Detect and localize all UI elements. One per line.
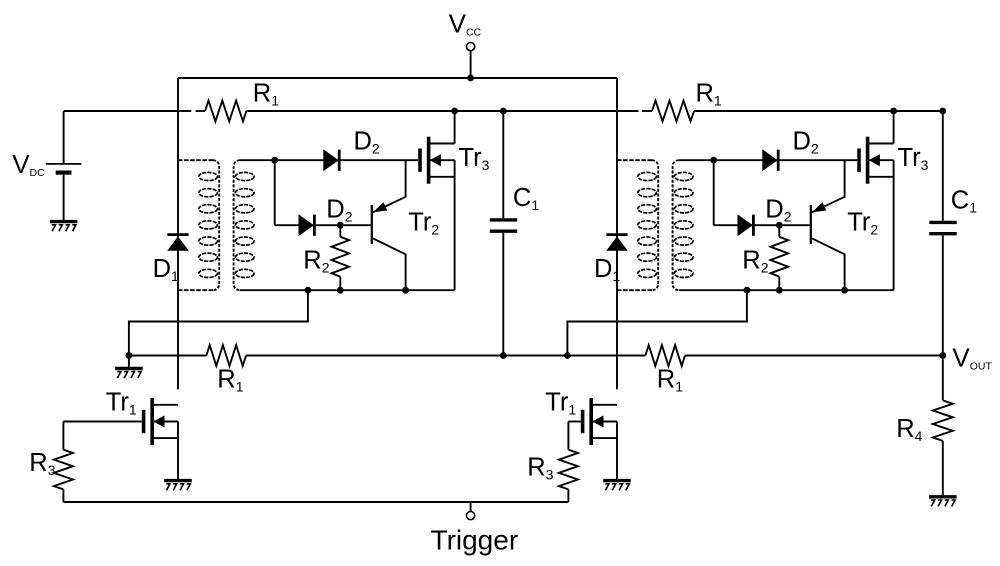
diode D1 (left) <box>167 235 188 251</box>
diode D2 lower (left) <box>299 215 314 236</box>
diode D2 lower (right) <box>738 215 753 236</box>
wire: block edge vertical (left) <box>177 78 179 389</box>
transformer secondary winding (left) <box>234 160 254 290</box>
resistor R4 <box>933 356 953 496</box>
wire: Tr3 source down (right) <box>893 160 895 290</box>
svg-text:D2: D2 <box>765 196 791 225</box>
node secondary return (right) <box>744 287 751 294</box>
label Tr3 (right) <box>898 144 929 173</box>
wire: lower D2 / base wire (left) <box>275 224 371 226</box>
label R3 (right) <box>527 453 553 482</box>
label R2 (right) <box>742 247 768 276</box>
node Tr3 drain rail junction (right) <box>890 108 897 115</box>
svg-text:Trigger: Trigger <box>431 524 519 555</box>
wire: Tr1 source down (right) <box>616 422 618 480</box>
svg-text:Tr2: Tr2 <box>408 208 439 237</box>
node Vout <box>939 352 946 359</box>
wire: Tr3 drain to rail (left) <box>454 111 456 144</box>
label R2 (left) <box>303 247 329 276</box>
node lower rail junction (left) <box>125 352 132 359</box>
svg-text:R3: R3 <box>29 449 55 478</box>
label C1 (left) <box>513 184 539 213</box>
label Vcc <box>449 9 482 39</box>
svg-text:D2: D2 <box>793 128 819 157</box>
label Tr1 (left) <box>106 388 137 417</box>
terminal Trigger <box>467 511 475 519</box>
label Tr2 (left) <box>408 208 439 237</box>
resistor R3 (right) <box>559 422 578 503</box>
svg-text:Tr3: Tr3 <box>898 144 929 173</box>
svg-text:C1: C1 <box>513 184 539 213</box>
transistor Tr1 (left) <box>63 398 178 445</box>
svg-text:VOUT: VOUT <box>952 343 992 373</box>
transformer secondary winding (right) <box>673 160 693 290</box>
svg-text:R1: R1 <box>217 365 243 394</box>
label Vout <box>952 343 992 373</box>
svg-text:C1: C1 <box>951 186 977 215</box>
transformer primary winding (right) <box>617 160 658 290</box>
node Tr3 drain rail junction (left) <box>451 108 458 115</box>
svg-text:VCC: VCC <box>449 9 482 39</box>
svg-text:R1: R1 <box>253 79 279 108</box>
transistor Tr2 (left) <box>372 160 406 290</box>
label D2 upper (right) <box>793 128 819 157</box>
node lower rail junction (right) <box>564 352 571 359</box>
node R2 bottom (right) <box>776 287 783 294</box>
wire: Tr1 source down (left) <box>177 422 179 480</box>
diode D2 upper (left) <box>324 150 339 171</box>
svg-text:R1: R1 <box>696 79 722 108</box>
svg-text:Tr3: Tr3 <box>459 144 490 173</box>
transistor Tr3 (right) <box>859 137 894 184</box>
wire: lower D2 / base wire (right) <box>714 224 810 226</box>
svg-text:Tr1: Tr1 <box>106 388 137 417</box>
node secondary return (left) <box>305 287 312 294</box>
diode D2 upper (right) <box>763 150 778 171</box>
ground (secondary return, left) <box>115 356 143 379</box>
label R1 (upper left) <box>253 79 279 108</box>
svg-text:R3: R3 <box>527 453 553 482</box>
label D2 lower (right) <box>765 196 791 225</box>
ground (R4) <box>929 497 957 507</box>
node Tr2 collector (right) <box>841 287 848 294</box>
label Tr3 (left) <box>459 144 490 173</box>
svg-text:Tr2: Tr2 <box>847 208 878 237</box>
label Trigger <box>431 524 519 555</box>
wire: secondary return to lower rail (left) <box>129 290 308 355</box>
wire: upper supply rail R1 row <box>64 110 943 112</box>
node C1 right top <box>939 108 946 115</box>
transistor Tr3 (left) <box>420 137 455 184</box>
svg-text:R2: R2 <box>303 247 329 276</box>
capacitor C1 (right) <box>929 111 956 356</box>
wire: D2 branch vertical (left) <box>274 160 276 225</box>
label D2 lower (left) <box>326 196 352 225</box>
node Vcc junction <box>467 75 474 82</box>
node D2 branch junction (left) <box>271 157 278 164</box>
wire: inner bottom rail (left) <box>240 289 455 291</box>
svg-text:D2: D2 <box>326 196 352 225</box>
svg-text:VDC: VDC <box>12 149 45 179</box>
node Tr2 collector (left) <box>402 287 409 294</box>
ground (battery) <box>50 222 78 232</box>
svg-text:D1: D1 <box>153 255 179 284</box>
svg-text:D2: D2 <box>354 128 380 157</box>
wire: trigger line <box>63 502 568 512</box>
transistor Tr1 (right) <box>568 398 617 445</box>
node R2 bottom (left) <box>337 287 344 294</box>
wire: Vcc top rail <box>178 77 617 79</box>
node C1 left bottom <box>500 352 507 359</box>
wire: Tr3 source down (left) <box>454 160 456 290</box>
label R1 (upper right) <box>696 79 722 108</box>
battery VDC <box>46 111 82 220</box>
label D1 (left) <box>153 255 179 284</box>
svg-text:R1: R1 <box>657 365 683 394</box>
ground (Tr1 right) <box>603 481 631 491</box>
node D2 branch junction (right) <box>710 157 717 164</box>
resistor R3 (left) <box>54 422 73 503</box>
wire: Tr3 drain to rail (right) <box>893 111 895 144</box>
transformer primary winding (left) <box>178 160 219 290</box>
wire: secondary return to lower rail (right) <box>567 290 747 355</box>
svg-text:Tr1: Tr1 <box>545 388 576 417</box>
resistor R1 (lower right) <box>645 345 685 366</box>
svg-text:R2: R2 <box>742 247 768 276</box>
resistor R2 (right) <box>771 225 789 290</box>
resistor R2 (left) <box>332 225 350 290</box>
resistor R1 (upper left) <box>205 101 246 122</box>
label D1 (right) <box>594 255 620 284</box>
wire: secondary top lead (left) <box>240 159 418 161</box>
label R1 (lower right) <box>657 365 683 394</box>
wire: secondary top lead (right) <box>679 159 857 161</box>
wire: D2 branch vertical (right) <box>713 160 715 225</box>
label Tr2 (right) <box>847 208 878 237</box>
label D2 upper (left) <box>354 128 380 157</box>
node R2 top (left) <box>337 222 344 229</box>
resistor R1 (lower left) <box>206 345 246 366</box>
node C1 left top <box>500 108 507 115</box>
wire: inner bottom rail (right) <box>679 289 894 291</box>
capacitor C1 (left) <box>490 111 517 356</box>
transistor Tr2 (right) <box>811 160 845 290</box>
label R3 (left) <box>29 449 55 478</box>
label C1 (right) <box>951 186 977 215</box>
svg-text:R4: R4 <box>896 415 922 444</box>
label R4 <box>896 415 922 444</box>
terminal Vcc <box>467 43 475 79</box>
diode D1 (right) <box>606 235 627 251</box>
label VDC <box>12 149 45 179</box>
node R2 top (right) <box>776 222 783 229</box>
label Tr1 (right) <box>545 388 576 417</box>
label R1 (lower left) <box>217 365 243 394</box>
wire: lower rail <box>129 355 943 357</box>
wire: block edge vertical (right) <box>616 78 618 389</box>
resistor R1 (upper right) <box>652 101 694 122</box>
ground (Tr1 left) <box>164 481 192 491</box>
